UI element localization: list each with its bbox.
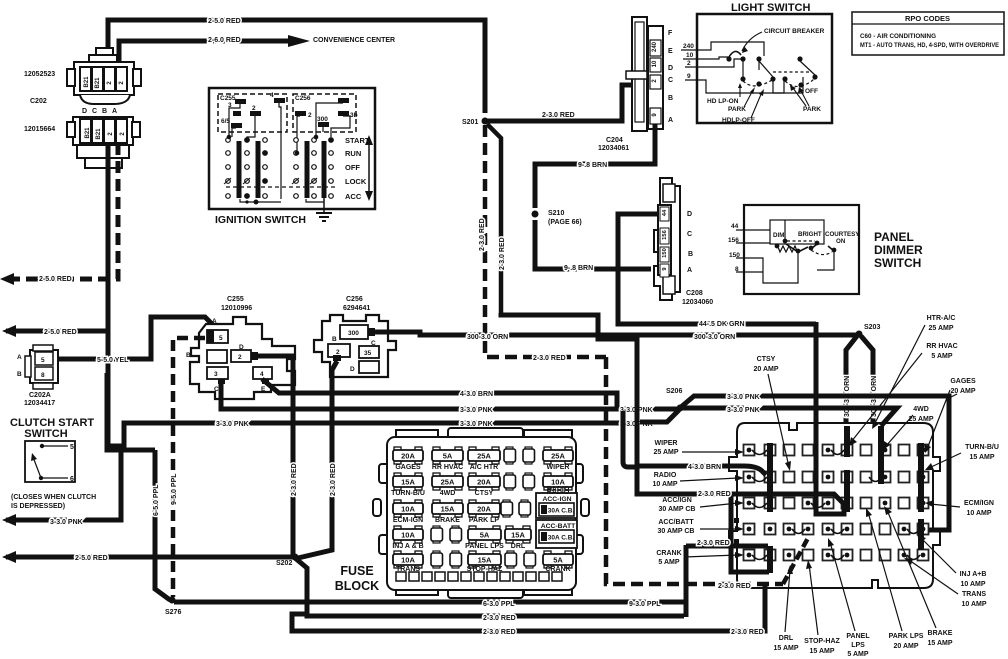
svg-text:35: 35 bbox=[364, 350, 372, 357]
leader ACC/IGN bbox=[700, 503, 738, 507]
svg-text:ECM-IGN: ECM-IGN bbox=[393, 517, 423, 524]
wire 5-5.0 YEL from C202A pin A to C255 pin A bbox=[57, 317, 214, 359]
ignition switch box bbox=[209, 88, 375, 209]
svg-text:300: 300 bbox=[317, 116, 328, 123]
svg-text:MT1 - AUTO TRANS, HD, 4-SPD, W: MT1 - AUTO TRANS, HD, 4-SPD, WITH OVERDR… bbox=[860, 42, 999, 49]
leader ECM/IGN bbox=[930, 504, 960, 507]
svg-text:10: 10 bbox=[652, 60, 658, 67]
svg-text:15A: 15A bbox=[401, 478, 415, 487]
svg-text:3: 3 bbox=[214, 371, 218, 378]
wire S206 diagonal to lower PNK bbox=[640, 410, 679, 422]
svg-text:INJ A & B: INJ A & B bbox=[392, 543, 423, 550]
svg-text:TRANS: TRANS bbox=[396, 566, 420, 573]
svg-text:LOCK: LOCK bbox=[345, 177, 367, 186]
svg-text:2: 2 bbox=[687, 60, 691, 67]
connector C255 dashed box bbox=[218, 94, 287, 132]
ignition switch wiper marks on LOCK row bbox=[224, 178, 317, 184]
svg-text:PARK: PARK bbox=[803, 106, 821, 113]
svg-text:C: C bbox=[92, 108, 97, 115]
svg-text:2-5.0 RED: 2-5.0 RED bbox=[75, 555, 108, 562]
svg-text:BRAKE: BRAKE bbox=[928, 630, 953, 637]
svg-text:PANEL LPS: PANEL LPS bbox=[465, 543, 504, 550]
leader PANEL LPS bbox=[830, 542, 855, 631]
svg-text:D: D bbox=[239, 344, 244, 351]
svg-text:5: 5 bbox=[41, 357, 45, 364]
node S276 bbox=[169, 597, 176, 604]
svg-text:9: 9 bbox=[687, 73, 691, 80]
wire 2-5.0 RED solid to left arrow bbox=[6, 329, 108, 334]
svg-text:C255: C255 bbox=[227, 296, 244, 303]
svg-text:2-5.0 RED: 2-5.0 RED bbox=[39, 276, 72, 283]
svg-text:ACC-BATT: ACC-BATT bbox=[541, 523, 576, 530]
svg-text:25 AMP: 25 AMP bbox=[908, 416, 933, 423]
svg-text:6294641: 6294641 bbox=[343, 305, 370, 312]
svg-text:ACC/BATT: ACC/BATT bbox=[658, 519, 694, 526]
connector C256 dashed box bbox=[293, 94, 356, 132]
svg-text:CIRCUIT BREAKER: CIRCUIT BREAKER bbox=[764, 28, 825, 35]
wire 4-3.0 BRN into grid row2 bbox=[637, 466, 766, 475]
svg-text:15 AMP: 15 AMP bbox=[773, 645, 798, 652]
svg-text:PARK LPS: PARK LPS bbox=[889, 633, 924, 640]
fuse 15A STOP-HAZ bbox=[467, 551, 503, 573]
svg-text:2-3.0 RED: 2-3.0 RED bbox=[533, 355, 566, 362]
svg-text:240: 240 bbox=[652, 41, 658, 52]
C255 pin boxes bbox=[207, 330, 272, 379]
svg-text:RR HVAC: RR HVAC bbox=[432, 464, 463, 471]
svg-text:S202: S202 bbox=[276, 560, 292, 567]
svg-text:15A: 15A bbox=[511, 531, 525, 540]
svg-text:D: D bbox=[350, 366, 355, 373]
svg-text:SWITCH: SWITCH bbox=[24, 428, 67, 440]
svg-text:2-5.0 RED: 2-5.0 RED bbox=[44, 329, 77, 336]
RPO codes box bbox=[852, 12, 1004, 55]
svg-text:A: A bbox=[112, 108, 117, 115]
wire 3-3.0 PNK from C255 pin 3 (long) bbox=[221, 379, 680, 409]
dimmer labels bbox=[773, 231, 860, 245]
svg-text:OFF: OFF bbox=[345, 163, 360, 172]
leader circuit breaker bbox=[742, 32, 762, 51]
svg-text:C: C bbox=[371, 340, 376, 347]
dimmer pin stubs bbox=[736, 220, 834, 283]
svg-text:ACC-IGN: ACC-IGN bbox=[542, 496, 571, 503]
svg-text:20 AMP: 20 AMP bbox=[950, 388, 975, 395]
svg-text:(PAGE 66): (PAGE 66) bbox=[548, 219, 582, 226]
svg-text:20A: 20A bbox=[477, 478, 491, 487]
svg-text:2: 2 bbox=[336, 349, 340, 356]
wire 3-3.0 PNK arrow bottom left bbox=[107, 446, 155, 450]
svg-text:30 AMP CB: 30 AMP CB bbox=[659, 506, 696, 513]
svg-text:300-3.0 ORN: 300-3.0 ORN bbox=[467, 334, 508, 341]
svg-text:8: 8 bbox=[735, 266, 739, 273]
svg-text:B: B bbox=[688, 251, 693, 258]
svg-text:10: 10 bbox=[686, 52, 694, 59]
svg-text:WIPER: WIPER bbox=[547, 464, 570, 471]
svg-text:6: 6 bbox=[70, 476, 74, 483]
leader GAGES bbox=[927, 390, 950, 449]
C204 pin letters bbox=[668, 30, 673, 124]
svg-text:C202A: C202A bbox=[29, 392, 51, 399]
svg-text:300-3.0 ORN: 300-3.0 ORN bbox=[694, 334, 735, 341]
svg-text:15A: 15A bbox=[478, 556, 492, 565]
wire 2-3.0 RED solid S201 branch to feed vertical bbox=[501, 313, 637, 466]
svg-text:C256: C256 bbox=[295, 95, 311, 102]
svg-text:2: 2 bbox=[252, 105, 256, 112]
circuit breaker ACC-BATT 30A C.B. bbox=[536, 520, 577, 548]
connector C256 6294641 outline bbox=[314, 315, 396, 377]
svg-text:2-3.0 RED: 2-3.0 RED bbox=[697, 540, 730, 547]
leader 4WD bbox=[886, 415, 913, 446]
svg-text:DIM: DIM bbox=[773, 232, 784, 239]
leader DRL bbox=[785, 570, 790, 632]
wire 2-5.0 RED bottom to S202 bbox=[6, 555, 293, 560]
svg-text:C60 - AIR CONDITIONING: C60 - AIR CONDITIONING bbox=[860, 33, 936, 40]
svg-text:TRANS: TRANS bbox=[962, 591, 986, 598]
wire 2-3.0 RED y616 from S202 bbox=[295, 558, 684, 616]
svg-text:2-6.0 RED: 2-6.0 RED bbox=[208, 37, 241, 44]
C208 pin letters bbox=[687, 211, 693, 274]
svg-text:C256: C256 bbox=[346, 296, 363, 303]
svg-text:BRIGHT: BRIGHT bbox=[798, 231, 822, 238]
svg-text:15 AMP: 15 AMP bbox=[969, 454, 994, 461]
light switch pin lines and numbers bbox=[683, 43, 694, 80]
svg-text:INJ A+B: INJ A+B bbox=[960, 571, 987, 578]
wire grid left edge stubs bbox=[734, 518, 739, 523]
clutch switch contacts bbox=[31, 446, 68, 478]
svg-text:F: F bbox=[668, 30, 673, 37]
svg-text:6-5.0 PPL: 6-5.0 PPL bbox=[153, 484, 160, 516]
wire 2-3.0 RED into grid row4 bbox=[686, 544, 768, 549]
svg-text:2-3.0 RED: 2-3.0 RED bbox=[718, 583, 751, 590]
wire 300-3.0 ORN from C256 pin A to S203 bbox=[375, 332, 857, 335]
svg-text:20A: 20A bbox=[477, 505, 491, 514]
wire 4-3.0 BRN from C255 pin 4 bbox=[262, 379, 617, 409]
svg-text:6-3.0 PPL: 6-3.0 PPL bbox=[483, 601, 515, 608]
svg-text:240: 240 bbox=[683, 43, 694, 50]
svg-text:15 AMP: 15 AMP bbox=[927, 640, 952, 647]
svg-text:5A: 5A bbox=[443, 452, 453, 461]
dashed LOCK row line bbox=[226, 186, 335, 188]
svg-text:C: C bbox=[687, 231, 692, 238]
wire 2-3.0 RED y631 bbox=[292, 584, 765, 631]
svg-text:150: 150 bbox=[729, 252, 740, 259]
fuse small blank bbox=[450, 551, 462, 568]
svg-text:C202: C202 bbox=[30, 98, 47, 105]
svg-text:A: A bbox=[668, 117, 673, 124]
bottom labels bbox=[773, 630, 952, 658]
fuse 5A RR HVAC bbox=[432, 447, 463, 471]
svg-text:4WD: 4WD bbox=[440, 490, 456, 497]
svg-text:WIPER: WIPER bbox=[655, 440, 678, 447]
svg-text:BLOCK: BLOCK bbox=[335, 579, 379, 593]
svg-text:CRANK: CRANK bbox=[656, 550, 681, 557]
svg-text:S276: S276 bbox=[165, 609, 181, 616]
svg-text:S206: S206 bbox=[666, 388, 682, 395]
svg-text:12034061: 12034061 bbox=[598, 145, 629, 152]
svg-text:E: E bbox=[261, 386, 266, 393]
wire 2-3.0 RED from S201 to C204 pin C bbox=[485, 85, 633, 121]
svg-text:5 AMP: 5 AMP bbox=[931, 353, 952, 360]
clutch start switch box bbox=[25, 441, 75, 482]
fuse small blank bbox=[504, 473, 516, 490]
svg-text:2-3.0 RED: 2-3.0 RED bbox=[483, 615, 516, 622]
svg-text:3-3.0 PNK: 3-3.0 PNK bbox=[460, 421, 493, 428]
fuse 5A PANEL LPS bbox=[465, 526, 504, 550]
fuse block outline bbox=[373, 428, 589, 598]
svg-text:20A: 20A bbox=[401, 452, 415, 461]
fuse 10A INJ A & B bbox=[392, 526, 423, 550]
svg-text:4-3.0 BRN: 4-3.0 BRN bbox=[688, 464, 721, 471]
fuse 15A BRAKE bbox=[432, 500, 463, 524]
fuse 20A GAGES bbox=[393, 447, 423, 471]
svg-text:CTSY: CTSY bbox=[475, 490, 494, 497]
svg-text:BRAKE: BRAKE bbox=[435, 517, 460, 524]
svg-text:D: D bbox=[687, 211, 692, 218]
circuit breaker arc bbox=[729, 51, 741, 57]
svg-text:ACC/IGN: ACC/IGN bbox=[662, 497, 692, 504]
svg-text:20 AMP: 20 AMP bbox=[753, 366, 778, 373]
svg-text:2-3.0 RED: 2-3.0 RED bbox=[483, 629, 516, 636]
left grid labels with arrows bbox=[652, 440, 695, 566]
fuse small blank bbox=[523, 447, 535, 464]
wire grid left edge vertical bbox=[731, 496, 769, 572]
svg-text:5 AMP: 5 AMP bbox=[658, 559, 679, 566]
wire 300-3.0 ORN right leg down bbox=[861, 336, 873, 430]
wire bars inside grid bbox=[770, 426, 921, 573]
svg-text:PANEL: PANEL bbox=[846, 633, 870, 640]
fuse small blank bbox=[519, 500, 531, 517]
wire dashed 2-3.0 RED y584 bbox=[606, 357, 783, 584]
svg-text:5: 5 bbox=[70, 444, 74, 451]
node S201 bbox=[482, 118, 489, 125]
svg-text:156: 156 bbox=[662, 229, 668, 239]
leader TURN-B/U bbox=[929, 453, 961, 468]
wire 9-5.0 PPL dashed from C255 pin 5 bbox=[173, 338, 205, 597]
svg-text:2-3.0 RED: 2-3.0 RED bbox=[731, 629, 764, 636]
svg-text:12052523: 12052523 bbox=[24, 71, 55, 78]
wire 3-3.0 PNK upper right from S206 bbox=[681, 396, 949, 530]
svg-text:4: 4 bbox=[260, 371, 264, 378]
svg-text:5 AMP: 5 AMP bbox=[847, 651, 868, 658]
svg-text:ECM/IGN: ECM/IGN bbox=[964, 500, 994, 507]
wire 3-3.0 PNK lower right from S206 to 4WD bbox=[682, 408, 897, 426]
svg-text:8: 8 bbox=[41, 372, 45, 379]
leader RADIO bbox=[680, 478, 738, 481]
svg-text:B: B bbox=[102, 108, 107, 115]
svg-text:5A: 5A bbox=[480, 531, 490, 540]
fuse 25A 4WD bbox=[432, 473, 463, 497]
leader PARK LPS bbox=[868, 512, 902, 631]
svg-text:30A C.B.: 30A C.B. bbox=[548, 535, 575, 542]
fuse 15A TURN-B/U bbox=[391, 473, 425, 497]
position labels START RUN OFF LOCK ACC bbox=[345, 136, 370, 201]
wire dashed diagonal into grid row4 bbox=[783, 538, 808, 584]
svg-text:HD LP-ON: HD LP-ON bbox=[707, 98, 739, 105]
svg-text:25 AMP: 25 AMP bbox=[928, 325, 953, 332]
svg-text:C: C bbox=[214, 386, 219, 393]
svg-text:LPS: LPS bbox=[851, 642, 865, 649]
svg-text:RADIO: RADIO bbox=[547, 489, 570, 496]
svg-text:2: 2 bbox=[238, 354, 242, 361]
ignition switch thick bars bbox=[239, 141, 324, 198]
fuse small blank bbox=[505, 551, 517, 568]
svg-text:5: 5 bbox=[219, 335, 223, 342]
svg-text:25A: 25A bbox=[441, 478, 455, 487]
light switch internal contacts wiring bbox=[742, 61, 744, 77]
wire solid 2-3.0 RED from S201 down bbox=[487, 124, 501, 315]
svg-text:CRANK: CRANK bbox=[545, 566, 570, 573]
svg-text:10A: 10A bbox=[401, 505, 415, 514]
ignition switch filled contacts bbox=[227, 135, 334, 205]
wire dashed 2-3.0 RED down from S201 bbox=[485, 125, 606, 357]
svg-text:10A: 10A bbox=[401, 531, 415, 540]
svg-text:RUN: RUN bbox=[345, 149, 361, 158]
wire 2-3.0 RED into grid row3 bbox=[637, 466, 847, 507]
svg-text:9-5.0 PPL: 9-5.0 PPL bbox=[171, 473, 178, 505]
wire 44-.5 DK GRN vertical into grid bbox=[816, 322, 844, 514]
svg-text:A: A bbox=[17, 354, 22, 361]
svg-text:3-3.0 PNK: 3-3.0 PNK bbox=[460, 407, 493, 414]
svg-text:B: B bbox=[332, 336, 337, 343]
ignition switch contact circles bbox=[226, 138, 334, 199]
circuit breaker ACC-IGN 30A C.B. bbox=[536, 493, 577, 518]
fuse 5A CRANK bbox=[543, 551, 573, 573]
wire 2-3.0 RED from C256 pin 2 down to S202 bbox=[298, 361, 337, 558]
connector C202 upper 12052523 bbox=[67, 48, 141, 104]
svg-text:2-3.0 RED: 2-3.0 RED bbox=[330, 463, 337, 496]
dimmer rheostat zigzag bbox=[778, 246, 797, 252]
svg-text:IS DEPRESSED): IS DEPRESSED) bbox=[11, 503, 65, 510]
dimmer contact dots bbox=[775, 239, 837, 254]
svg-text:3-3.0 PNK: 3-3.0 PNK bbox=[50, 519, 83, 526]
svg-text:9-3.0 PPL: 9-3.0 PPL bbox=[629, 601, 661, 608]
fuse 10A ECM-IGN bbox=[393, 500, 423, 524]
svg-text:DRL: DRL bbox=[511, 543, 526, 550]
svg-text:10 AMP: 10 AMP bbox=[966, 510, 991, 517]
connector C208 12034060 bbox=[654, 178, 680, 300]
wire 6-3.0 PPL / 9-3.0 PPL bottom bbox=[174, 600, 686, 605]
wire 3-3.0 PNK from C202A pin B hook bbox=[107, 373, 637, 446]
leader CRANK bbox=[684, 555, 738, 557]
svg-text:3-3.0 PNK: 3-3.0 PNK bbox=[216, 421, 249, 428]
wire 6-5.0 PPL down to S276 bbox=[155, 450, 170, 600]
svg-text:A/C HTR: A/C HTR bbox=[470, 464, 498, 471]
svg-text:RR HVAC: RR HVAC bbox=[926, 343, 957, 350]
svg-text:SWITCH: SWITCH bbox=[874, 256, 921, 270]
svg-text:B: B bbox=[186, 352, 191, 359]
double arrow bbox=[368, 143, 370, 193]
fuse 20A PARK LP bbox=[468, 500, 500, 524]
svg-text:4: 4 bbox=[270, 92, 274, 99]
svg-text:RPO CODES: RPO CODES bbox=[905, 14, 950, 23]
fuse 15A DRL bbox=[505, 526, 531, 550]
leader BRAKE bbox=[887, 510, 936, 628]
light switch internal labels bbox=[707, 28, 825, 124]
svg-text:B21: B21 bbox=[85, 127, 91, 139]
svg-text:CTSY: CTSY bbox=[757, 356, 776, 363]
wire vertical PNK1 to BRN bbox=[623, 411, 637, 467]
svg-text:12034060: 12034060 bbox=[682, 299, 713, 306]
svg-text:OFF: OFF bbox=[805, 88, 818, 95]
node S206 bbox=[677, 405, 684, 412]
fuse 10A TRANS bbox=[393, 551, 423, 573]
svg-text:25A: 25A bbox=[477, 452, 491, 461]
wire 2-5.0 RED (top, from C202 pin up to S201) bbox=[108, 20, 485, 113]
svg-text:GAGES: GAGES bbox=[395, 464, 421, 471]
svg-text:STOP-HAZ: STOP-HAZ bbox=[804, 638, 840, 645]
svg-text:C255: C255 bbox=[220, 95, 236, 102]
svg-text:4WD: 4WD bbox=[913, 406, 929, 413]
leader WIPER bbox=[682, 451, 738, 453]
svg-text:2-3.0 RED: 2-3.0 RED bbox=[291, 463, 298, 496]
wire solid from C202 lower pin B down left side bbox=[106, 143, 111, 450]
svg-text:FUSE: FUSE bbox=[340, 564, 373, 578]
svg-text:20 AMP: 20 AMP bbox=[893, 643, 918, 650]
svg-text:10 AMP: 10 AMP bbox=[960, 581, 985, 588]
svg-text:GAGES: GAGES bbox=[950, 378, 976, 385]
light switch contact dots bbox=[726, 56, 817, 87]
leader CTSY bbox=[768, 374, 789, 467]
wire 2-6.0 RED to convenience center bbox=[119, 41, 288, 63]
svg-text:44: 44 bbox=[662, 209, 668, 216]
svg-text:2-5.0 RED: 2-5.0 RED bbox=[208, 18, 241, 25]
svg-text:5A: 5A bbox=[553, 556, 563, 565]
ignition switch C256 pins bbox=[295, 98, 349, 127]
svg-text:ON: ON bbox=[836, 238, 846, 245]
svg-text:HDLP-OFF: HDLP-OFF bbox=[722, 117, 755, 124]
svg-text:25 AMP: 25 AMP bbox=[653, 449, 678, 456]
svg-text:10 AMP: 10 AMP bbox=[652, 481, 677, 488]
svg-text:5-5.0 YEL: 5-5.0 YEL bbox=[97, 357, 129, 364]
leader TRANS bbox=[909, 560, 958, 594]
svg-text:HTR-A/C: HTR-A/C bbox=[927, 315, 956, 322]
node S203 bbox=[856, 331, 863, 338]
svg-text:156: 156 bbox=[728, 237, 739, 244]
svg-text:10A: 10A bbox=[401, 556, 415, 565]
ignition switch internal thin wires bbox=[226, 103, 350, 202]
wire 44-.5 DK GRN from C208 pin D bbox=[618, 214, 816, 324]
connector C202A 12034417 bbox=[25, 345, 58, 389]
leader INJ A+B bbox=[921, 538, 956, 573]
fuse small blank bbox=[450, 526, 462, 543]
svg-text:15A: 15A bbox=[441, 505, 455, 514]
node S202 bbox=[292, 554, 299, 561]
svg-text:CONVENIENCE CENTER: CONVENIENCE CENTER bbox=[313, 37, 395, 44]
svg-text:25A: 25A bbox=[551, 452, 565, 461]
svg-text:3-3.0 PNK: 3-3.0 PNK bbox=[727, 394, 760, 401]
svg-text:9-.8 BRN: 9-.8 BRN bbox=[578, 162, 607, 169]
leader HTR-A/C bbox=[874, 325, 925, 425]
fuse 25A WIPER bbox=[543, 447, 573, 471]
svg-text:12010996: 12010996 bbox=[221, 305, 252, 312]
wire vertical x686 bbox=[684, 545, 689, 617]
ignition switch C255 pins bbox=[231, 98, 285, 128]
wire dashed 2-5.0 RED from C202 lower pin A bbox=[2, 143, 118, 279]
light switch label leader arrows bbox=[738, 83, 809, 118]
svg-text:10 AMP: 10 AMP bbox=[961, 601, 986, 608]
fuse block terminal strip bbox=[396, 572, 562, 581]
svg-text:DIMMER: DIMMER bbox=[874, 243, 923, 257]
svg-text:B21: B21 bbox=[95, 77, 101, 89]
svg-text:2-3.0 RED: 2-3.0 RED bbox=[499, 237, 506, 270]
svg-text:A: A bbox=[370, 329, 375, 336]
svg-text:S210: S210 bbox=[548, 210, 564, 217]
fuse small blank bbox=[524, 551, 536, 568]
svg-text:PANEL: PANEL bbox=[874, 230, 914, 244]
leader ACC/BATT bbox=[700, 528, 738, 530]
svg-text:300: 300 bbox=[348, 330, 359, 337]
fuse 25A A/C HTR bbox=[468, 447, 500, 471]
svg-text:STOP-HAZ: STOP-HAZ bbox=[467, 566, 503, 573]
